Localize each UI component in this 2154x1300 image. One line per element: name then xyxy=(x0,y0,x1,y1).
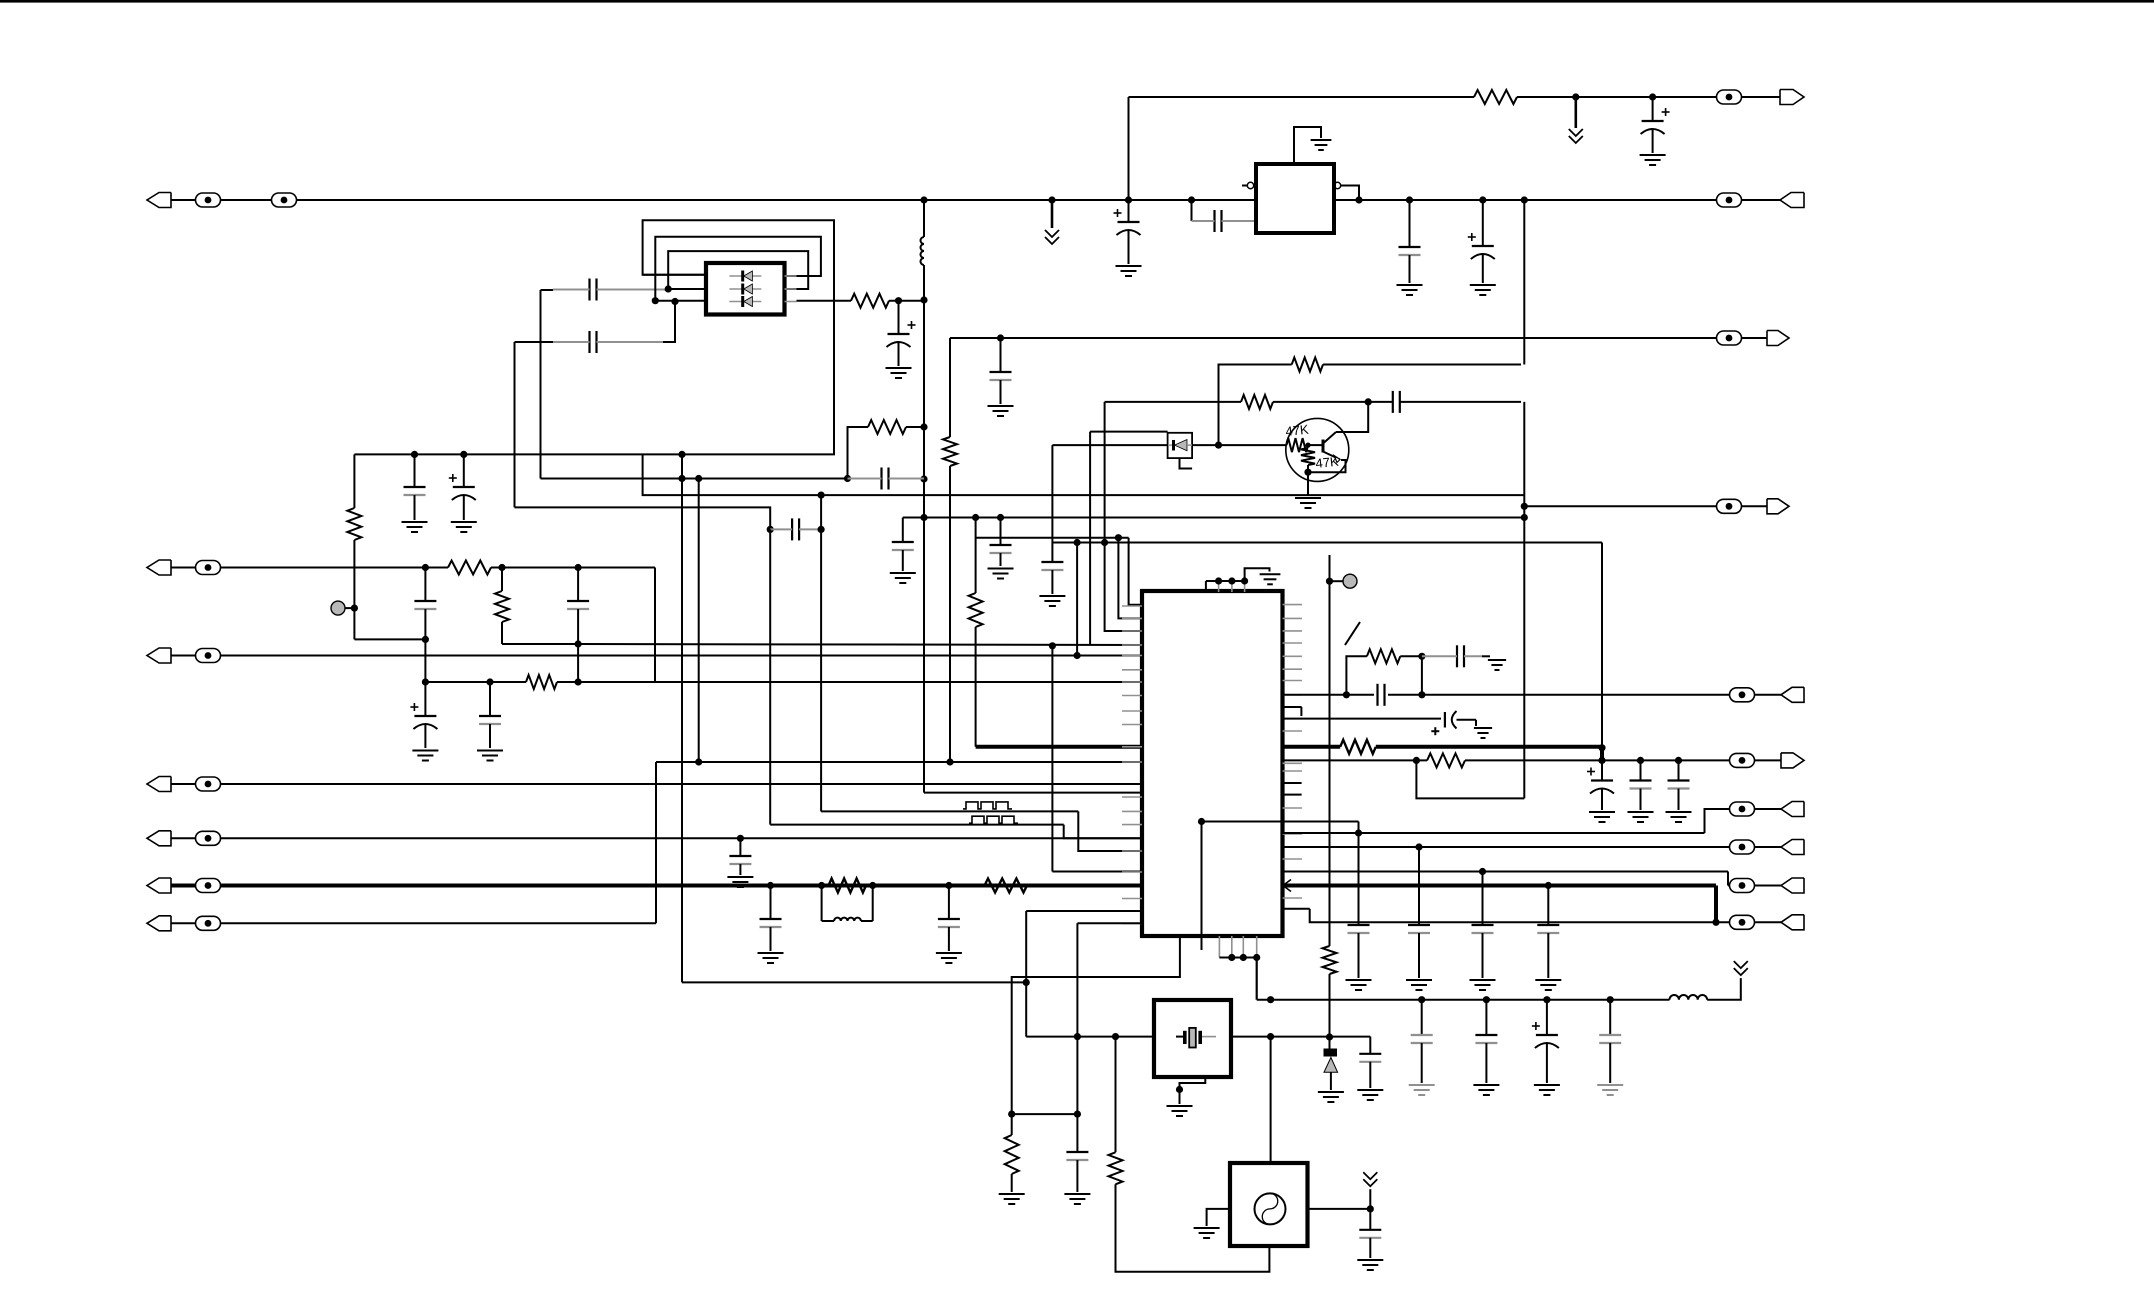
svg-text:47K: 47K xyxy=(1285,422,1310,439)
svg-text:47K: 47K xyxy=(1315,454,1340,471)
